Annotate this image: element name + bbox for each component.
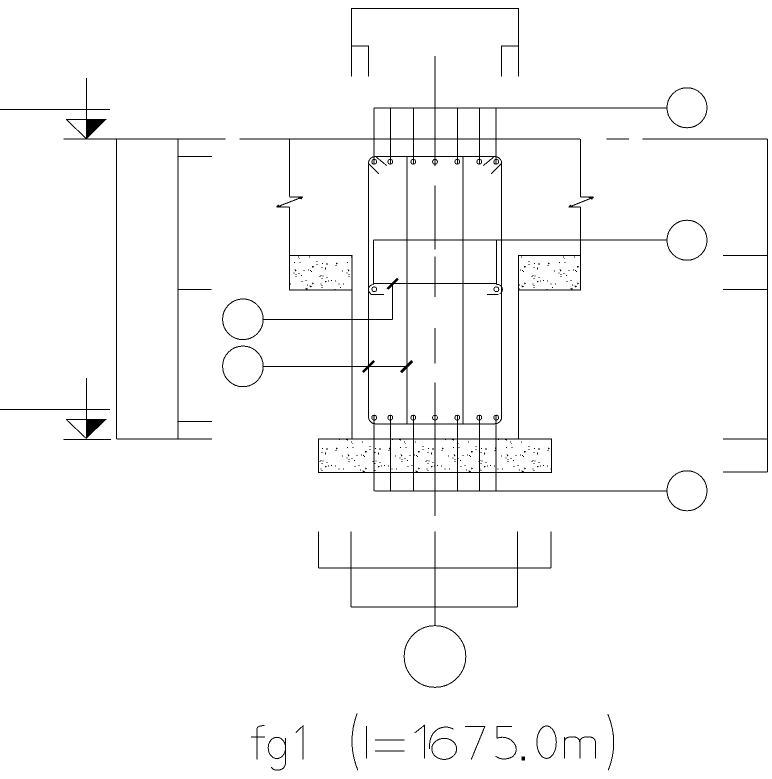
leader from left callout 2	[263, 365, 407, 367]
glyph 5	[496, 726, 517, 759]
right abutment tick 4	[723, 471, 767, 473]
callout circle mid-right	[667, 220, 707, 260]
bottom rebar section circles	[372, 415, 499, 420]
footing strip (hatched)	[319, 439, 552, 473]
inner stirrup rectangle verticals	[374, 240, 497, 284]
pier cap (top hat) outline	[352, 8, 519, 76]
left pier tick middle	[178, 289, 212, 291]
cage inner vertical left	[406, 157, 408, 424]
bar end hook right circle	[494, 287, 499, 292]
glyph 1	[296, 726, 303, 760]
left concrete corbel block (hatched)	[289, 256, 352, 290]
leader to bottom-right callout	[374, 490, 667, 492]
water level symbol lower: stem	[85, 378, 87, 438]
excavation line left above block with break	[276, 139, 303, 256]
slash tick on leader 1	[388, 279, 398, 289]
glyph 7	[465, 726, 485, 759]
water level symbol lower: filled half	[86, 420, 106, 439]
leader from left callout 1	[263, 283, 392, 319]
right concrete corbel block (hatched)	[518, 256, 580, 290]
water level symbol lower: line	[0, 408, 110, 410]
water level symbol upper: filled half	[87, 119, 107, 138]
leader to mid-right callout (inner stirrup top)	[374, 239, 667, 241]
left pier column right edge	[177, 139, 179, 439]
bottom callout circle	[404, 626, 466, 688]
right abutment tick 3	[723, 438, 767, 440]
right abutment tick 2	[723, 288, 767, 290]
stirrup hook diagonals top-right	[483, 157, 501, 174]
glyph f	[251, 726, 265, 760]
glyph 0	[537, 726, 556, 758]
water level symbol upper: open triangle	[66, 119, 106, 138]
bottom rebar dowels to lower leader	[374, 415, 496, 491]
lower cross line 1	[318, 567, 551, 569]
bar end hook left arc and tail	[369, 285, 385, 295]
slash tick on leader 2 at cage edge	[363, 361, 374, 372]
glyph g	[268, 737, 285, 758]
top rebar section circles	[372, 159, 499, 164]
right abutment tick 1	[723, 255, 767, 257]
lower cross line 2	[351, 606, 517, 608]
glyph 6	[430, 727, 454, 749]
wall line below right block	[517, 290, 519, 439]
glyph 1	[415, 725, 425, 758]
glyph (	[352, 714, 358, 771]
slash tick on leader 2 at inner bar	[401, 361, 412, 372]
water level symbol upper: line	[0, 109, 110, 111]
leader to top-right callout	[374, 107, 667, 109]
left pier tick bottom	[178, 421, 212, 423]
bar end hook left circle	[372, 287, 377, 292]
left pier column bottom	[117, 438, 213, 440]
left pier column left edge	[116, 139, 118, 439]
left callout circle 2	[223, 346, 264, 387]
vertical centerline (axis) of pile, dashed segments	[434, 56, 436, 626]
right abutment outline vertical	[766, 139, 768, 472]
water level symbol upper: stem	[86, 78, 88, 139]
lower inner verticals	[351, 568, 517, 607]
excavation line right above block with break	[569, 139, 594, 256]
left pier tick top	[178, 155, 212, 157]
wall line below left block	[351, 290, 353, 439]
title text: fg1 (l=1675.0m)	[251, 714, 614, 771]
bar end hook right arc and tail	[487, 285, 502, 295]
glyph =	[375, 740, 405, 751]
callout circle bottom-right	[667, 471, 707, 511]
left callout circle 1	[223, 299, 264, 340]
top rebar dowels from leader	[374, 108, 496, 165]
inner stirrup rectangle bottom	[374, 282, 497, 284]
break arrows left	[298, 197, 303, 200]
callout circle top-right	[667, 88, 707, 128]
stirrup hook diagonals top-left	[369, 157, 387, 174]
glyph .	[522, 757, 526, 761]
ground line (dashed)	[63, 138, 767, 140]
glyph l	[366, 726, 368, 759]
break arrows right	[588, 197, 593, 200]
glyph )	[608, 714, 614, 770]
lower pile verticals (5 stubs)	[318, 532, 551, 568]
glyph m	[564, 737, 595, 759]
water level symbol lower: base line	[63, 438, 111, 440]
water level symbol lower: open triangle	[66, 420, 106, 439]
pile cage rounded rectangle	[369, 157, 502, 424]
cage inner vertical right	[462, 157, 464, 424]
